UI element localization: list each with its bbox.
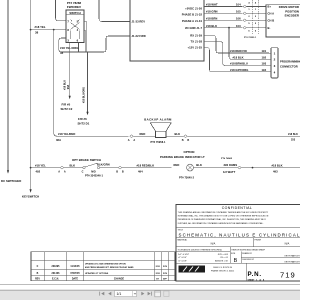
- wire: drop to F/R #5: [61, 52, 73, 111]
- svg-text:103: 103: [236, 24, 241, 28]
- svg-text:PT# 73640-2: PT# 73640-2: [179, 176, 195, 179]
- switch S1 pins and internal wiring: [67, 20, 79, 43]
- svg-text:2=1″ & 1/16″: 2=1″ & 1/16″: [178, 254, 189, 256]
- svg-text:INTERNATIONAL, INC. THIS DRAWI: INTERNATIONAL, INC. THIS DRAWING IS NOT …: [178, 215, 269, 218]
- label: #18 YEL/ORG 34: [60, 46, 79, 55]
- title block: bottom row with logo and part number: [176, 263, 302, 281]
- svg-text:#18 RED/BLK: #18 RED/BLK: [137, 163, 155, 167]
- svg-text:DCM: DCM: [163, 266, 168, 268]
- svg-text:CHANGE: CHANGE: [114, 277, 125, 280]
- lamp DS1: parking brake indicator: [174, 163, 238, 179]
- label: OPTION PARKING BRAKE INDICATOR LT: [160, 150, 233, 160]
- svg-text:PARKING BRAKE INDICATOR LT: PARKING BRAKE INDICATOR LT: [160, 155, 205, 159]
- svg-text:BLK: BLK: [70, 163, 76, 167]
- svg-text:BLK: BLK: [196, 163, 202, 167]
- svg-text:TX J1-28: TX J1-28: [191, 40, 203, 44]
- svg-text:38: 38: [35, 30, 39, 34]
- svg-text:FURTHER, ALL INFORMATION CONTA: FURTHER, ALL INFORMATION CONTAINED HEREI…: [178, 222, 264, 225]
- svg-text:A: A: [64, 170, 66, 173]
- svg-text:MATERIAL: MATERIAL: [178, 239, 188, 242]
- svg-text:THIS DRAWING AND ALL INFORMATI: THIS DRAWING AND ALL INFORMATION CONTAIN…: [178, 211, 269, 214]
- svg-text:C: C: [82, 170, 84, 173]
- svg-text:719: 719: [280, 271, 296, 280]
- svg-text:PHASE B J1-32: PHASE B J1-32: [182, 13, 203, 17]
- revision header row: [35, 277, 168, 280]
- wire: #18 YEL 38 to switch pin 8: [31, 29, 66, 31]
- wire: #18 WHT 104: [204, 3, 266, 11]
- toolbar pager buttons: [100, 291, 169, 297]
- svg-text:BACKUP ALARM: BACKUP ALARM: [144, 117, 172, 121]
- svg-text:DCM: DCM: [156, 266, 161, 268]
- svg-text:ENCODER: ENCODER: [285, 14, 299, 18]
- connector: backup alarm A-A: [128, 135, 136, 142]
- svg-text:REMOVE BURRS AND BREAK SHARP: REMOVE BURRS AND BREAK SHARP: [232, 248, 266, 251]
- svg-text:A: A: [58, 170, 60, 173]
- svg-text:C: C: [37, 266, 39, 268]
- svg-text:494: 494: [138, 169, 143, 173]
- svg-text:DCM: DCM: [163, 273, 168, 275]
- svg-text:#18 BRN: #18 BRN: [206, 16, 217, 20]
- title block frame: [176, 205, 302, 282]
- wire: DC SWITCHED feed (left vertical): [1, 0, 21, 183]
- node: I/O GND branch: [228, 27, 230, 29]
- wire: BLK lead: [166, 132, 183, 136]
- svg-text:PERMISSION OF WHATEVER INTERNA: PERMISSION OF WHATEVER INTERNATIONAL, IN…: [178, 218, 267, 221]
- page bottom edge line: [0, 284, 300, 286]
- svg-text:#18 BLU/ORG: #18 BLU/ORG: [83, 87, 86, 103]
- wire: top feed into switch pin 7: [56, 0, 67, 21]
- svg-text:1/2 WATT: 1/2 WATT: [223, 170, 236, 174]
- wire: #18 BLK 493 to edge: [242, 163, 300, 173]
- svg-text:#18 BLK: #18 BLK: [206, 24, 217, 28]
- svg-text:#18 WHT: #18 WHT: [206, 3, 218, 7]
- viewer toolbar strip: [0, 290, 300, 300]
- svg-text:B: B: [182, 139, 184, 142]
- svg-text:KEITH HARTLEY: KEITH HARTLEY: [285, 254, 300, 257]
- svg-text:1/1: 1/1: [117, 292, 122, 296]
- wire: backup alarm return #18 BLK 253: [188, 133, 300, 141]
- wire: #18 RED/BLK 494: [122, 163, 171, 173]
- svg-text:J1-22 FWD: J1-22 FWD: [132, 34, 146, 38]
- controller U1 left pin labels: [132, 20, 146, 38]
- wire: I/O GND to programming pin 2: [229, 28, 269, 60]
- svg-text:#18 BLK: #18 BLK: [233, 55, 244, 59]
- svg-text:J1-33 REV: J1-33 REV: [132, 20, 146, 24]
- svg-text:+12V J1-25: +12V J1-25: [188, 46, 203, 50]
- svg-text:106: 106: [236, 16, 241, 20]
- wire: TX to programming pin 3: [204, 42, 269, 66]
- wire: backup alarm feed #18 YEL/RED 36A: [56, 132, 129, 142]
- svg-text:PHASE A J1-31: PHASE A J1-31: [182, 19, 202, 23]
- svg-text:231895: 231895: [52, 266, 61, 268]
- svg-text:#18 YEL/ORG: #18 YEL/ORG: [60, 46, 79, 50]
- svg-text:B: B: [187, 139, 189, 142]
- svg-text:07/07/05: 07/07/05: [70, 273, 80, 275]
- connector: lamp B-B: [238, 166, 242, 169]
- svg-text:194: 194: [262, 68, 267, 72]
- wire: keyswitch vertical bus: [22, 0, 39, 199]
- svg-text:105: 105: [236, 10, 241, 14]
- svg-text:SHT2 D1: SHT2 D1: [78, 121, 90, 125]
- svg-text:UPDATED AT & SIDE ORIENTATIONS: UPDATED AT & SIDE ORIENTATIONS OPTION: [85, 263, 126, 266]
- svg-text:F/R #5: F/R #5: [62, 102, 71, 106]
- svg-text:3: 3: [274, 64, 276, 68]
- svg-text:104: 104: [236, 3, 241, 7]
- wire: RX to programming pin 1: [204, 36, 269, 54]
- svg-text:#18 BLK: #18 BLK: [288, 133, 298, 136]
- svg-text:#18 GRN: #18 GRN: [206, 10, 218, 14]
- svg-text:B+: B+: [268, 5, 272, 9]
- svg-text:I/O GND J1-7: I/O GND J1-7: [185, 26, 202, 30]
- label: OPT BRAKE SWITCH: [72, 158, 101, 162]
- svg-text:1: 1: [274, 51, 276, 55]
- svg-text:B: B: [116, 170, 118, 173]
- revision row C: [37, 263, 168, 270]
- switch S1 box: [66, 10, 84, 43]
- svg-text:253: 253: [291, 138, 296, 141]
- svg-text:.XX ± .01: .XX ± .01: [220, 257, 228, 259]
- svg-text:PRAIRIE GROVE, IL 60012: PRAIRIE GROVE, IL 60012: [211, 269, 234, 272]
- title block: CONFIDENTIAL header: [222, 206, 252, 210]
- connector: backup alarm B-B: [182, 135, 190, 142]
- wire: #18 BLK 103: [204, 24, 266, 33]
- svg-text:SCHEMATIC, NAUTILUS E CYLINDRI: SCHEMATIC, NAUTILUS E CYLINDRICAL: [179, 233, 301, 238]
- svg-text:#18 BRN/BLU: #18 BRN/BLU: [230, 62, 248, 66]
- svg-text:90A: 90A: [67, 85, 70, 90]
- svg-text:BLK: BLK: [175, 132, 181, 136]
- svg-text:DATE: DATE: [72, 277, 79, 280]
- svg-text:PT# 3342546-1: PT# 3342546-1: [85, 175, 103, 178]
- svg-text:SHT2 C2: SHT2 C2: [61, 107, 73, 111]
- wire: #18 GRN 105: [204, 10, 266, 19]
- svg-text:DC SWITCHED: DC SWITCHED: [1, 179, 21, 183]
- wire: #18 BRN 106: [204, 16, 266, 25]
- svg-text:BLK/GRN: BLK/GRN: [97, 162, 110, 166]
- svg-text:191: 191: [262, 49, 267, 53]
- svg-text:CH B: CH B: [268, 18, 275, 22]
- svg-text:OPTION: OPTION: [183, 150, 194, 154]
- wire: switch pin5/pin4 drops: [84, 22, 87, 53]
- svg-text:.XXX ± .005: .XXX ± .005: [217, 254, 228, 256]
- node: junction YEL38 / alarm drop: [53, 29, 55, 31]
- svg-text:UPDATED OT OPTIONS: UPDATED OT OPTIONS: [85, 272, 109, 275]
- connector J2: encoder bulkhead (dashed halves): [244, 0, 259, 39]
- svg-text:#18 YEL/RED: #18 YEL/RED: [58, 132, 75, 136]
- svg-text:CONFIDENTIAL: CONFIDENTIAL: [222, 206, 252, 210]
- title block: confidential paragraph: [178, 211, 269, 225]
- node: junction #18 YEL 38: [30, 25, 46, 34]
- wire: BLK lead to switch: [64, 163, 83, 167]
- wire: +12V to programming pin 4: [204, 48, 269, 72]
- svg-text:B: B: [122, 170, 124, 173]
- svg-text:<1″ & 1/8″: <1″ & 1/8″: [178, 259, 187, 262]
- title block: TITLE row: [176, 228, 302, 238]
- svg-text:+5VDC J1-26: +5VDC J1-26: [185, 7, 202, 11]
- svg-text:#18 YEL: #18 YEL: [35, 25, 46, 29]
- encoder U2 box: [266, 5, 302, 37]
- svg-text:A: A: [128, 139, 130, 142]
- connector: brake switch B-B: [116, 166, 124, 173]
- svg-text:FINISH: FINISH: [255, 240, 262, 242]
- svg-text:231406: 231406: [52, 272, 61, 275]
- svg-text:N/A: N/A: [285, 242, 290, 246]
- svg-text:492: 492: [36, 169, 41, 173]
- svg-text:34: 34: [60, 51, 64, 55]
- svg-text:E.C.N.: E.C.N.: [52, 278, 59, 280]
- svg-text:AND PRESS WASHER OPT. REMOVE P: AND PRESS WASHER OPT. REMOVE P/N W/AC WA…: [85, 266, 134, 269]
- revision row B: [37, 272, 168, 275]
- svg-text:CONNECTOR: CONNECTOR: [280, 65, 298, 69]
- title block: MATERIAL / FINISH row: [176, 238, 302, 247]
- wire: #18 YEL 492: [31, 163, 60, 173]
- svg-text:PT# 70958-1: PT# 70958-1: [150, 141, 166, 144]
- svg-text:493: 493: [273, 170, 278, 174]
- wire: J1-33 REV from top: [99, 0, 130, 22]
- svg-text:TOLERANCES (UNLESS OTHERWISE S: TOLERANCES (UNLESS OTHERWISE SPECIFIED): [178, 248, 223, 251]
- svg-text:B: B: [37, 273, 39, 275]
- wire: drop to F/R #6: [78, 52, 90, 125]
- svg-text:DCM: DCM: [156, 273, 161, 275]
- svg-text:P.N.: P.N.: [248, 271, 262, 278]
- svg-text:#18 GRY/ORG: #18 GRY/ORG: [230, 68, 248, 72]
- svg-text:KEYSWITCH: KEYSWITCH: [22, 195, 39, 199]
- wire: alarm feed drop: [54, 30, 58, 137]
- wire: BLK/GRN lead: [100, 167, 118, 169]
- svg-text:TITLE: TITLE: [178, 230, 184, 232]
- svg-text:4: 4: [274, 70, 276, 74]
- wire: FWD run (switch bottom bus to J1-22): [59, 36, 130, 52]
- svg-text:PROGRAMMING: PROGRAMMING: [280, 59, 300, 63]
- svg-text:SHEET 1 of 8: SHEET 1 of 8: [248, 279, 266, 281]
- connector: brake switch A-A: [58, 166, 66, 173]
- controller U1 right pin labels: [182, 7, 203, 50]
- svg-text:RED: RED: [174, 163, 180, 167]
- revision table: [31, 252, 175, 281]
- svg-text:DRAWN BY: DRAWN BY: [242, 252, 253, 255]
- svg-text:#18 BLK: #18 BLK: [272, 163, 283, 167]
- svg-text:#18 RED/VIO: #18 RED/VIO: [230, 49, 247, 53]
- svg-text:#18 YEL: #18 YEL: [35, 163, 46, 167]
- svg-text:11/14/05: 11/14/05: [70, 265, 80, 268]
- svg-text:>1″ & 1/4″: >1″ & 1/4″: [178, 256, 187, 259]
- backup alarm BA1: [144, 117, 172, 144]
- title block: size / drawn / checked: [231, 251, 302, 264]
- svg-text:A: A: [133, 139, 135, 142]
- svg-text:RED: RED: [140, 132, 146, 136]
- svg-text:FWD/REV: FWD/REV: [67, 5, 81, 9]
- svg-text:RX J1-29: RX J1-29: [190, 34, 202, 38]
- svg-text:193: 193: [262, 62, 267, 66]
- controller U1 box: [130, 0, 204, 61]
- svg-text:2: 2: [274, 58, 276, 62]
- svg-text:SWITCH: SWITCH: [69, 11, 80, 15]
- svg-text:REV: REV: [35, 278, 40, 280]
- switch S2: parking brake switch: [82, 162, 110, 177]
- svg-text:N/O: N/O: [91, 170, 96, 173]
- svg-text:OPT BRAKE SWITCH: OPT BRAKE SWITCH: [72, 158, 101, 162]
- wire: lamp return: [193, 167, 237, 169]
- svg-text:CH A: CH A: [268, 12, 275, 16]
- svg-text:PT# 74963: PT# 74963: [221, 157, 233, 160]
- title block: tolerances row: [176, 247, 302, 263]
- connector J3: programming connector: [269, 48, 302, 78]
- svg-text:F/R #6: F/R #6: [78, 117, 87, 121]
- svg-text:192: 192: [262, 55, 267, 59]
- svg-text:N/A: N/A: [211, 242, 216, 246]
- svg-text:390 OHMS: 390 OHMS: [224, 163, 238, 167]
- svg-text:36A: 36A: [56, 138, 61, 142]
- svg-text:B-: B-: [268, 26, 271, 30]
- node: brake circuit tap: [30, 167, 32, 169]
- svg-text:CHECKED BY: CHECKED BY: [242, 259, 255, 261]
- switch S1 FWD/REV labels: [67, 1, 82, 9]
- svg-text:14000 U.S. ROUTE 30: 14000 U.S. ROUTE 30: [213, 267, 232, 269]
- svg-text:PT# 70523-1: PT# 70523-1: [244, 37, 257, 39]
- svg-text:ANGLES ± 30': ANGLES ± 30': [215, 259, 228, 262]
- wire: RED lead: [134, 132, 156, 136]
